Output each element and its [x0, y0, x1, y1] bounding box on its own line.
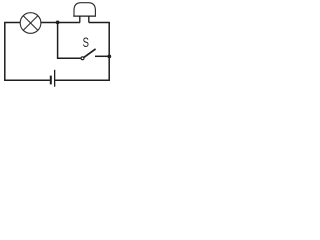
lamp cross stroke 2 [23, 16, 37, 30]
bell base line [73, 15, 96, 17]
bell leg right [88, 16, 90, 22]
switch lever (open) [84, 49, 96, 57]
battery positive plate (long thin) [54, 70, 56, 87]
wire: lamp to bell left leg [41, 22, 80, 24]
bell dome [74, 3, 95, 16]
battery negative plate (short thick) [50, 76, 52, 85]
wire: top-left segment, left vertical, bottom-left segment [5, 23, 50, 81]
lamp L1 circle [20, 13, 41, 34]
switch S pivot [81, 57, 84, 60]
junction node B (contact wire to right vertical) [107, 55, 111, 59]
junction node A (top wire to switch branch) [56, 21, 60, 25]
wire: bell right leg to top-right corner, right vertical, bottom-right segment [55, 23, 109, 81]
switch fixed contact wire [95, 55, 109, 57]
bell leg left [79, 16, 81, 22]
svg-text:S: S [83, 35, 89, 50]
lamp cross stroke 1 [23, 16, 37, 30]
wire: switch branch down from junction A then right to pivot [58, 23, 81, 59]
